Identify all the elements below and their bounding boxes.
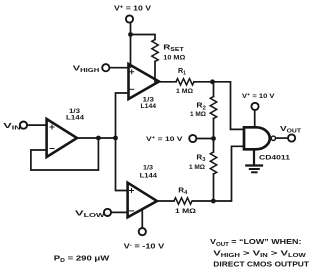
- op-amp U3 (1/3 L144, VLOW comparator): [128, 165, 158, 218]
- svg-text:1/3: 1/3: [143, 165, 153, 172]
- wire node B to R3: [213, 139, 215, 153]
- svg-text:R3: R3: [196, 155, 205, 164]
- svg-text:1 MΩ: 1 MΩ: [189, 164, 205, 171]
- svg-text:R4: R4: [178, 188, 187, 197]
- resistor R4: [174, 188, 196, 216]
- junction node B: [211, 136, 216, 141]
- op-amp U2 (1/3 L144, VIN buffer): [47, 108, 85, 157]
- wire R3 to node C: [213, 174, 215, 201]
- svg-text:VIN: VIN: [3, 121, 21, 132]
- svg-text:VHIGH > VIN > VLOW: VHIGH > VIN > VLOW: [213, 248, 306, 259]
- svg-text:V+ = 10 V: V+ = 10 V: [242, 93, 275, 100]
- wire RSET to output node: [154, 62, 156, 82]
- wire U3 output to R4: [157, 200, 174, 202]
- svg-text:PD = 290 μW: PD = 290 μW: [54, 254, 110, 265]
- wire gate to ground: [253, 149, 255, 164]
- node VHIGH terminal: [73, 63, 110, 74]
- junction VIN node: [113, 136, 118, 141]
- wire R2 to node B: [213, 119, 215, 139]
- ground: [246, 166, 262, 173]
- wire U1 - input down to VIN node: [116, 93, 129, 138]
- wire node A to R2: [213, 82, 215, 97]
- svg-text:L144: L144: [140, 173, 158, 180]
- svg-text:VLOW: VLOW: [75, 209, 105, 220]
- wire V+ mid to node B: [197, 138, 214, 140]
- svg-text:10 MΩ: 10 MΩ: [163, 55, 185, 62]
- svg-text:RSET: RSET: [163, 45, 184, 54]
- wire node C to gate lower input: [193, 146, 244, 201]
- junction V+ rail: [128, 32, 133, 37]
- node V+ gate terminal: [242, 93, 275, 110]
- svg-text:R1: R1: [178, 68, 186, 77]
- node VIN terminal: [3, 121, 27, 132]
- wire U2 feedback loop: [31, 138, 99, 170]
- wire VLOW to U3 - input: [111, 211, 127, 213]
- NAND gate U4 CD4011: [244, 127, 290, 161]
- junction node C: [211, 199, 216, 204]
- svg-text:L144: L144: [66, 115, 84, 122]
- svg-text:L144: L144: [141, 103, 157, 110]
- resistor R1: [176, 68, 194, 95]
- node VOUT terminal: [280, 124, 301, 142]
- wire VIN node to U3 + input: [116, 138, 128, 191]
- svg-text:V+ = 10 V: V+ = 10 V: [114, 3, 151, 12]
- svg-text:VOUT: VOUT: [280, 124, 301, 135]
- note VOUT condition text: [210, 237, 309, 268]
- node VLOW terminal: [75, 209, 111, 220]
- svg-text:1 MΩ: 1 MΩ: [175, 208, 196, 215]
- wire V+ to gate: [254, 110, 256, 127]
- svg-text:CD4011: CD4011: [259, 154, 290, 161]
- wire V+ to op-amp U1: [130, 23, 132, 67]
- svg-text:V+ = 10 V: V+ = 10 V: [146, 136, 183, 143]
- wire VHIGH to U1 + input: [110, 67, 129, 69]
- resistor R3: [189, 152, 217, 174]
- svg-text:V- = -10 V: V- = -10 V: [124, 241, 166, 250]
- svg-text:VHIGH: VHIGH: [73, 63, 100, 74]
- junction U2 output: [96, 136, 101, 141]
- wire U3 to V- terminal: [141, 210, 143, 229]
- wire junction to RSET: [131, 35, 156, 40]
- wire U2 output: [77, 137, 116, 139]
- wire gate output to VOUT: [276, 137, 288, 139]
- svg-text:DIRECT CMOS OUTPUT: DIRECT CMOS OUTPUT: [213, 259, 309, 268]
- svg-text:1 MΩ: 1 MΩ: [190, 111, 206, 118]
- svg-text:VOUT = “LOW” WHEN:: VOUT = “LOW” WHEN:: [210, 237, 302, 248]
- junction node A: [210, 79, 215, 84]
- wire R1 to node A: [194, 82, 244, 130]
- resistor R2: [190, 97, 217, 119]
- node V- terminal: [124, 228, 166, 250]
- resistor RSET: [152, 40, 186, 62]
- wire U1 output to R1: [159, 81, 176, 83]
- node V+ top terminal: [114, 3, 151, 22]
- node V+ mid terminal: [146, 135, 196, 143]
- op-amp U1 (1/3 L144, VHIGH comparator): [129, 64, 160, 110]
- wire VIN to U2 + input: [27, 124, 46, 126]
- svg-text:1 MΩ: 1 MΩ: [176, 88, 193, 95]
